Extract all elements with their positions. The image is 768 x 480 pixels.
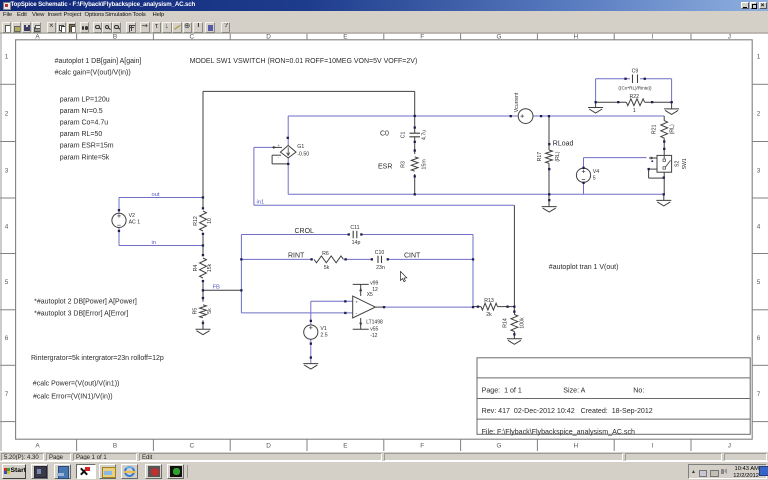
svg-text:R22: R22 xyxy=(630,94,640,100)
wire V4 positive lead xyxy=(584,158,647,168)
wire R13 link xyxy=(473,306,514,308)
junction and ground below RLoad xyxy=(542,193,557,212)
wire G1 plus control xyxy=(254,147,273,205)
capacitor C9 xyxy=(618,68,652,90)
svg-text:V2: V2 xyxy=(129,213,135,219)
node FB label xyxy=(213,285,221,291)
node in label xyxy=(152,240,157,246)
svg-text:-12: -12 xyxy=(370,333,377,339)
svg-text:param ESR=15m: param ESR=15m xyxy=(60,143,114,150)
wire RINT branch xyxy=(241,258,473,260)
wire R12 column xyxy=(202,91,204,329)
svg-text:#calc Error=(V(IN1)/V(in)): #calc Error=(V(IN1)/V(in)) xyxy=(33,393,113,400)
ground below R5 xyxy=(196,323,211,335)
svg-text:F: F xyxy=(420,443,424,450)
resistor R5 xyxy=(193,297,213,324)
ground below S2 xyxy=(656,200,671,206)
svg-text:100k: 100k xyxy=(519,317,525,329)
svg-text:5: 5 xyxy=(593,175,596,181)
svg-text:R4: R4 xyxy=(193,265,199,272)
text autoplot power/error directives xyxy=(34,299,137,318)
svg-text:12: 12 xyxy=(372,287,378,293)
junction dots integrator verticals xyxy=(202,196,474,308)
svg-text:V4: V4 xyxy=(593,169,599,175)
text param list xyxy=(60,97,114,162)
wire RLoad column xyxy=(548,116,550,207)
svg-text:X5: X5 xyxy=(367,292,373,298)
wire right vertical of integrator loop xyxy=(472,235,474,308)
ground below V1 xyxy=(303,364,318,370)
svg-text:1: 1 xyxy=(5,53,9,60)
window title bar xyxy=(0,0,768,11)
wire C9 loop right xyxy=(671,79,673,102)
svg-text:+: + xyxy=(278,143,281,148)
resistor R13 xyxy=(477,298,516,318)
svg-text:ESR: ESR xyxy=(378,163,392,170)
svg-text:4.7u: 4.7u xyxy=(421,130,427,140)
svg-text:File: F:\Flyback\Flybackspice_: File: F:\Flyback\Flybackspice_analysism_… xyxy=(482,428,635,436)
svg-text:6: 6 xyxy=(5,335,9,342)
svg-text:Page: 1 of 1: Page: 1 of 1 xyxy=(482,387,522,395)
svg-text:4: 4 xyxy=(757,223,761,230)
svg-text:C11: C11 xyxy=(350,225,359,231)
svg-text:-0.50: -0.50 xyxy=(297,152,309,158)
svg-text:R21: R21 xyxy=(651,124,657,134)
svg-text:H: H xyxy=(573,34,578,41)
taskbar xyxy=(0,461,768,480)
svg-text:D: D xyxy=(266,34,271,41)
svg-text:C10: C10 xyxy=(375,250,385,256)
op-amp U1 LT1498 xyxy=(344,281,385,339)
svg-text:param Co=4.7u: param Co=4.7u xyxy=(60,120,109,127)
svg-text:v99: v99 xyxy=(370,281,378,287)
wire left vertical of integrator loop xyxy=(240,235,242,313)
svg-text:5k: 5k xyxy=(207,308,213,314)
svg-text:FB: FB xyxy=(213,285,221,291)
svg-text:C0: C0 xyxy=(380,130,389,137)
text autoplot gain directives xyxy=(55,58,142,77)
svg-text:Rintergrator=5k intergrator=23: Rintergrator=5k intergrator=23n rolloff=… xyxy=(31,355,164,362)
text CINT label xyxy=(404,252,421,259)
wire R14 column xyxy=(513,307,515,339)
text RINT label xyxy=(288,252,305,259)
junction dots C1 column xyxy=(414,115,416,196)
svg-text:CROL: CROL xyxy=(295,228,315,235)
svg-text:A: A xyxy=(35,34,40,41)
svg-text:(RL): (RL) xyxy=(669,124,675,134)
wire FB net xyxy=(203,289,241,291)
resistor R21 xyxy=(651,121,675,150)
wire V2 top stub xyxy=(118,198,120,214)
svg-text:R14: R14 xyxy=(502,318,508,328)
svg-text:G: G xyxy=(497,443,502,450)
toolbar xyxy=(0,21,768,34)
node in1 label xyxy=(257,200,265,206)
svg-text:RINT: RINT xyxy=(288,252,305,259)
resistor R12 xyxy=(193,207,213,235)
svg-text:R6: R6 xyxy=(322,251,329,257)
svg-text:#autoplot tran 1 V(out): #autoplot tran 1 V(out) xyxy=(549,264,619,271)
resistor R4 xyxy=(193,254,213,282)
svg-text:E: E xyxy=(343,443,347,450)
text autoplot tran directive xyxy=(549,264,619,271)
svg-text:6: 6 xyxy=(757,335,761,342)
wire C9 loop top xyxy=(596,78,672,80)
resistor R22 xyxy=(617,94,653,114)
current sense source Vcurrent xyxy=(510,92,543,123)
svg-text:F: F xyxy=(420,34,424,41)
svg-text:R13: R13 xyxy=(484,298,494,304)
svg-text:SW1: SW1 xyxy=(682,158,688,169)
wire G1 output column xyxy=(287,116,289,194)
wire R21 S2 column xyxy=(663,116,665,200)
svg-text:2: 2 xyxy=(5,110,9,117)
text calc power/error xyxy=(33,381,120,401)
svg-text:param RL=50: param RL=50 xyxy=(60,131,103,138)
svg-text:2k: 2k xyxy=(486,312,492,318)
svg-text:#calc Power=(V(out)/V(in1)): #calc Power=(V(out)/V(in1)) xyxy=(33,381,120,388)
svg-text:I: I xyxy=(652,443,654,450)
resistor R6 xyxy=(310,251,346,271)
svg-text:G1: G1 xyxy=(297,144,304,150)
wire in1 net horizontal xyxy=(254,204,515,206)
svg-text:G: G xyxy=(497,34,502,41)
svg-text:Size: A: Size: A xyxy=(563,387,585,395)
svg-text:in: in xyxy=(152,240,157,246)
svg-text:((Co*RL)/Rinte)): ((Co*RL)/Rinte)) xyxy=(618,85,652,90)
svg-text:R12: R12 xyxy=(193,216,199,226)
menu bar xyxy=(0,11,768,21)
svg-text:MODEL SW1 VSWITCH (RON=0.01 RO: MODEL SW1 VSWITCH (RON=0.01 ROFF=10MEG V… xyxy=(190,58,418,65)
wire in1 vertical to R13/R14 node xyxy=(513,205,515,306)
svg-text:1: 1 xyxy=(633,108,636,114)
ground below R14 xyxy=(507,339,522,345)
wire out net horizontal xyxy=(119,197,203,199)
svg-text:in1: in1 xyxy=(257,200,265,206)
wire C9 loop left xyxy=(595,79,597,102)
wire opamp inverting input xyxy=(241,312,352,314)
wire G1 minus control loop xyxy=(272,155,288,164)
capacitor C11 xyxy=(348,225,363,246)
svg-text:D: D xyxy=(266,443,271,450)
resistor R3 xyxy=(378,157,427,171)
wire S2 lower control xyxy=(649,169,664,178)
text MODEL SW1 statement xyxy=(190,58,418,65)
svg-text:C: C xyxy=(189,443,194,450)
svg-text:J: J xyxy=(728,34,731,41)
mouse cursor xyxy=(401,272,407,282)
svg-text:param Nr=0.5: param Nr=0.5 xyxy=(60,108,103,115)
svg-text:Rev: 417 02-Dec-2012 10:42: Rev: 417 02-Dec-2012 10:42 Created: 18-S… xyxy=(482,407,653,415)
capacitor C1 xyxy=(380,126,427,177)
wire CROL feedback xyxy=(241,234,473,236)
ground below C9 right leg xyxy=(664,101,679,114)
svg-text:+: + xyxy=(355,300,358,305)
svg-text:LT1498: LT1498 xyxy=(366,319,383,325)
svg-text:No:: No: xyxy=(633,387,644,395)
svg-text:C1: C1 xyxy=(400,131,406,138)
svg-text:2: 2 xyxy=(757,110,761,117)
svg-text:14p: 14p xyxy=(352,240,361,246)
svg-text:param LP=120u: param LP=120u xyxy=(60,97,110,104)
svg-text:AC 1: AC 1 xyxy=(129,220,141,226)
wire C1 column xyxy=(414,91,416,194)
svg-text:5: 5 xyxy=(5,279,9,286)
text CROL label xyxy=(295,228,315,235)
svg-text:A: A xyxy=(35,443,40,450)
svg-text:23n: 23n xyxy=(376,265,385,271)
voltage source V2 xyxy=(112,209,140,232)
svg-text:-: - xyxy=(355,311,357,317)
svg-text:CINT: CINT xyxy=(404,252,421,259)
wire top main net xyxy=(288,115,664,117)
svg-text:C: C xyxy=(189,34,194,41)
svg-text:*#autoplot 3 DB[Error] A[Error: *#autoplot 3 DB[Error] A[Error] xyxy=(34,310,128,317)
svg-text:7: 7 xyxy=(757,391,761,398)
wire opamp output net xyxy=(375,306,473,308)
svg-text:#autoplot 1 DB[gain] A[gain]: #autoplot 1 DB[gain] A[gain] xyxy=(55,58,142,65)
svg-text:v55: v55 xyxy=(370,327,378,333)
svg-text:7: 7 xyxy=(5,391,9,398)
node out label xyxy=(152,192,160,198)
wire bottom ground net xyxy=(288,193,664,195)
svg-text:I: I xyxy=(652,34,654,41)
voltage source V4 xyxy=(576,167,599,184)
svg-text:J: J xyxy=(728,443,731,450)
resistor R17 RLoad xyxy=(537,140,574,170)
svg-text:2.5: 2.5 xyxy=(320,333,327,339)
wire opamp non-inverting input xyxy=(311,300,353,302)
svg-text:10: 10 xyxy=(207,218,213,224)
svg-text:1: 1 xyxy=(757,53,761,60)
svg-text:V1: V1 xyxy=(320,326,326,332)
svg-text:param Rinte=5k: param Rinte=5k xyxy=(60,154,110,161)
svg-text:S2: S2 xyxy=(675,161,681,167)
wire V2 bottom stub xyxy=(118,228,120,246)
svg-text:out: out xyxy=(152,192,160,198)
wire V1 column xyxy=(310,301,312,363)
svg-text:15m: 15m xyxy=(421,159,427,169)
junction dots S2 bottom xyxy=(663,177,665,196)
title block xyxy=(477,358,750,436)
junction dot top main at RLoad xyxy=(548,115,550,117)
status bar xyxy=(0,451,768,461)
svg-text:RLoad: RLoad xyxy=(553,140,574,147)
wire R22 link xyxy=(596,102,672,109)
wire V4 negative lead xyxy=(583,183,585,195)
switch S2 xyxy=(648,155,688,172)
wire in net horizontal xyxy=(119,245,203,247)
svg-text:C9: C9 xyxy=(632,68,639,74)
svg-text:R5: R5 xyxy=(193,308,199,315)
svg-text:3: 3 xyxy=(757,167,761,174)
svg-text:H: H xyxy=(573,443,578,450)
resistor R14 xyxy=(502,311,525,336)
svg-text:R17: R17 xyxy=(537,152,543,162)
svg-text:E: E xyxy=(343,34,347,41)
svg-text:15k: 15k xyxy=(207,263,213,272)
svg-text:#calc gain=(V(out)/V(in)): #calc gain=(V(out)/V(in)) xyxy=(55,69,131,76)
svg-text:*#autoplot 2 DB[Power] A[Power: *#autoplot 2 DB[Power] A[Power] xyxy=(34,299,137,306)
svg-text:R3: R3 xyxy=(400,161,406,168)
svg-text:5: 5 xyxy=(757,279,761,286)
svg-text:(RL): (RL) xyxy=(555,151,561,161)
svg-text:B: B xyxy=(113,34,117,41)
wire top feed from out node xyxy=(203,90,415,92)
svg-text:5k: 5k xyxy=(324,265,330,271)
voltage source V1 xyxy=(304,320,328,359)
svg-text:Vcurrent: Vcurrent xyxy=(514,92,520,112)
controlled source G1 xyxy=(272,137,309,165)
svg-text:3: 3 xyxy=(5,167,9,174)
text integrator values xyxy=(31,355,164,362)
ground below C9 left leg xyxy=(588,101,603,113)
svg-text:B: B xyxy=(113,443,117,450)
capacitor C10 xyxy=(371,250,389,271)
svg-text:4: 4 xyxy=(5,223,9,230)
